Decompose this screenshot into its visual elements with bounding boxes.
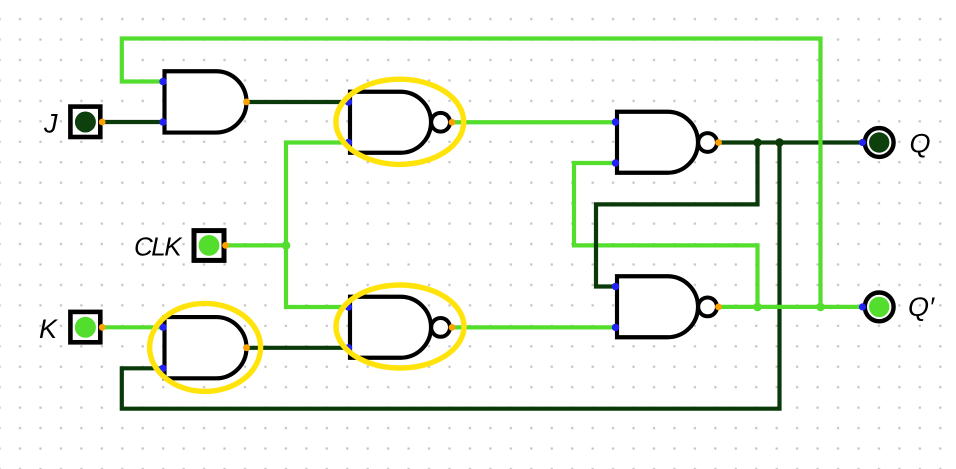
wire J input to AND A1 lower input (dark green) [102, 120, 163, 124]
svg-text:Q′: Q′ [908, 292, 935, 322]
wire Q-feedback down and around to AND A2 lower input [122, 143, 780, 409]
wire NAND N2 output to NAND N4 lower input [452, 325, 616, 329]
svg-text:J: J [43, 109, 58, 139]
junction Q node at feedback [775, 138, 784, 147]
wire NAND N3 output to output Q [719, 140, 863, 144]
wire Q'-feedback (bright green): Q' node up over the top to AND A1 upper input [122, 39, 821, 307]
junction Q' node at cross-couple [753, 303, 762, 312]
nand gate N4 [612, 276, 722, 337]
and gate A2 [159, 317, 250, 378]
svg-text:Q: Q [910, 128, 931, 158]
nand gate N3 [612, 112, 722, 173]
svg-text:K: K [39, 314, 58, 344]
nand gate N2 [345, 297, 456, 358]
wire AND A1 output to NAND N1 upper input [247, 100, 349, 104]
input pin J [70, 107, 105, 137]
junction Q' node at feedback [816, 303, 825, 312]
svg-text:CLK: CLK [134, 232, 183, 262]
output pin Q [859, 128, 894, 157]
input pin CLK [194, 231, 229, 261]
wire K input to AND A2 upper input [102, 325, 163, 329]
junction CLK node [282, 241, 291, 250]
nand gate N1 [345, 92, 456, 153]
output pin Q' [859, 293, 894, 322]
wire NAND N4 output to output Q' [719, 305, 863, 309]
label K [39, 314, 58, 344]
wire Q cross-couple to NAND N4 upper input [596, 143, 758, 287]
label Q [910, 128, 931, 158]
wire CLK junction down to NAND N2 upper input [286, 245, 349, 307]
highlight ellipse around NAND N1 [336, 79, 464, 164]
label Q' [908, 292, 935, 322]
wire Q' cross-couple to NAND N3 lower input [574, 163, 758, 307]
wire CLK output to junction [226, 243, 287, 247]
highlight ellipse around NAND N2 [336, 285, 464, 368]
label CLK [134, 232, 183, 262]
wire NAND N1 output to NAND N3 upper input [452, 120, 616, 124]
and gate A1 [159, 71, 250, 132]
wire CLK junction up to NAND N1 lower input [286, 143, 349, 246]
label J [43, 109, 58, 139]
wire AND A2 output to NAND N2 lower input [247, 346, 349, 350]
junction Q node at cross-couple [753, 138, 762, 147]
input pin K [70, 312, 105, 342]
highlight ellipse around AND A2 [150, 303, 261, 391]
